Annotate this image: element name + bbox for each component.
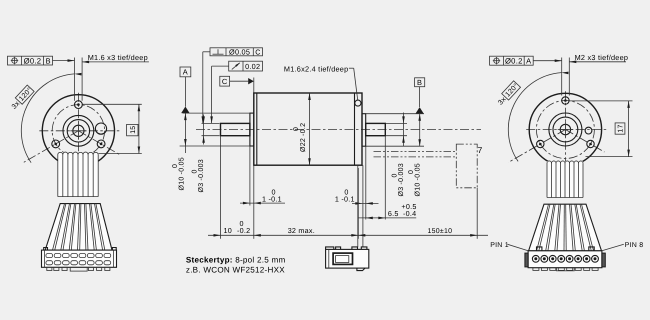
- svg-text:0: 0: [191, 169, 198, 173]
- svg-text:C: C: [222, 77, 228, 86]
- svg-text:+0.5: +0.5: [401, 202, 416, 211]
- svg-text:PIN 1: PIN 1: [490, 242, 509, 249]
- svg-text:0.02: 0.02: [245, 62, 260, 71]
- svg-text:B: B: [46, 56, 51, 65]
- svg-text:0: 0: [293, 127, 300, 131]
- svg-text:M1.6 x3 tief/deep: M1.6 x3 tief/deep: [88, 53, 148, 62]
- svg-text:7: 7: [478, 145, 483, 155]
- svg-text:Ø10 -0.05: Ø10 -0.05: [177, 157, 185, 190]
- svg-text:A: A: [183, 68, 188, 77]
- svg-text:Ø0.05: Ø0.05: [229, 48, 250, 57]
- svg-text:Ø10 -0.05: Ø10 -0.05: [414, 163, 422, 196]
- svg-text:0: 0: [408, 170, 415, 174]
- svg-text:0: 0: [272, 188, 276, 197]
- svg-text:B: B: [417, 78, 422, 87]
- svg-text:17: 17: [618, 124, 625, 132]
- svg-text:Ø0.2: Ø0.2: [24, 56, 42, 65]
- svg-text:C: C: [255, 49, 260, 57]
- svg-text:Ø0.2: Ø0.2: [505, 57, 523, 66]
- svg-text:0: 0: [172, 164, 179, 168]
- svg-text:Ø3 -0.003: Ø3 -0.003: [197, 159, 205, 192]
- svg-text:10: 10: [224, 226, 233, 235]
- svg-text:M1.6x2.4 tief/deep: M1.6x2.4 tief/deep: [284, 64, 349, 73]
- svg-text:A: A: [526, 57, 531, 66]
- svg-text:0: 0: [344, 188, 348, 197]
- svg-text:z.B. WCON WF2512-HXX: z.B. WCON WF2512-HXX: [186, 265, 285, 274]
- svg-text:M2 x3 tief/deep: M2 x3 tief/deep: [575, 53, 629, 62]
- svg-text:Steckertyp: 8-pol 2.5 mm: Steckertyp: 8-pol 2.5 mm: [186, 255, 286, 264]
- svg-text:PIN 8: PIN 8: [625, 242, 644, 249]
- svg-text:150±10: 150±10: [428, 228, 453, 235]
- svg-text:0: 0: [391, 173, 398, 177]
- svg-text:0: 0: [240, 219, 244, 228]
- svg-text:6.5: 6.5: [388, 209, 399, 218]
- svg-text:Ø3 -0.003: Ø3 -0.003: [397, 163, 405, 196]
- svg-text:32 max.: 32 max.: [288, 226, 315, 235]
- svg-text:15: 15: [130, 126, 137, 134]
